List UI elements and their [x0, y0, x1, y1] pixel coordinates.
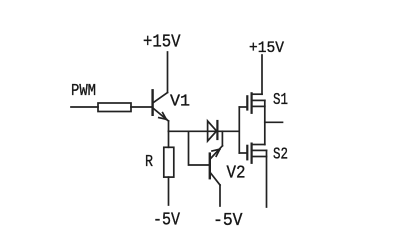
power -5V (middle)	[213, 210, 243, 231]
svg-text:-5V: -5V	[213, 210, 243, 231]
wire V1 collector to +15V	[167, 52, 169, 93]
wire R bottom to -5V	[168, 177, 170, 205]
wire S1 drain to +15V	[261, 55, 263, 94]
wire resistor to V1 base	[131, 106, 152, 108]
node label PWM	[71, 82, 96, 101]
wire S1 source to S2 drain	[264, 100, 266, 144]
svg-text:S2: S2	[273, 145, 288, 164]
label R	[145, 153, 153, 172]
node line (output of driver stage)	[169, 130, 239, 132]
resistor R	[164, 147, 174, 177]
resistor (input series, unlabeled)	[98, 103, 131, 112]
wire V2 collector to -5V	[219, 185, 221, 206]
transistor V2	[210, 146, 223, 185]
svg-text:V1: V1	[170, 92, 190, 111]
transistor V1	[153, 90, 169, 121]
wire output stub	[265, 121, 283, 123]
label V2	[227, 163, 246, 183]
svg-text:V2: V2	[227, 163, 246, 183]
wire node to R top	[168, 131, 170, 147]
wire node line down to V2 emitter	[221, 131, 223, 146]
svg-text:-5V: -5V	[153, 209, 180, 230]
label S1	[273, 90, 288, 109]
wire input left	[71, 106, 98, 108]
svg-text:+15V: +15V	[249, 39, 284, 57]
label S2	[273, 145, 288, 164]
wire S2 source down	[266, 150, 268, 207]
power +15V (left)	[143, 32, 181, 53]
svg-text:R: R	[145, 153, 153, 172]
svg-text:+15V: +15V	[143, 32, 181, 53]
wire gate bus	[238, 107, 240, 153]
diode D (on node line)	[208, 121, 218, 141]
svg-text:PWM: PWM	[71, 82, 96, 101]
MOSFET S2	[239, 144, 266, 163]
wire junction down to V2 base	[189, 131, 210, 165]
power -5V (left)	[153, 209, 180, 230]
svg-text:S1: S1	[273, 90, 288, 109]
label V1	[170, 92, 190, 111]
power +15V (right)	[249, 39, 284, 57]
MOSFET S1	[239, 93, 264, 113]
wire V1 emitter down to node	[168, 121, 170, 131]
